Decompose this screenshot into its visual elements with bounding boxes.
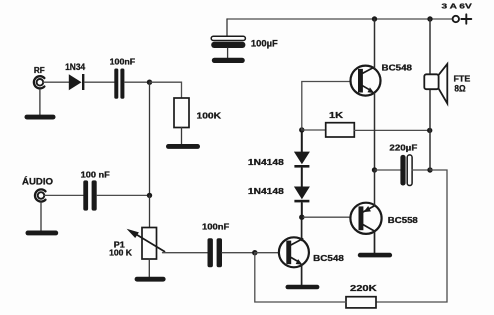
- wire node A down to audio node: [149, 82, 151, 195]
- ground under Q1: [286, 285, 320, 290]
- ground under RF: [25, 115, 56, 120]
- svg-text:100nF: 100nF: [110, 57, 136, 67]
- resistor R3 220K: [346, 283, 378, 308]
- wire P1 wiper to C3: [163, 252, 208, 254]
- svg-text:3 A 6V: 3 A 6V: [442, 1, 473, 10]
- capacitor C5 220uF: [389, 143, 417, 186]
- node A junction: [147, 80, 152, 85]
- svg-text:1N34: 1N34: [65, 62, 85, 72]
- svg-text:FTE: FTE: [454, 73, 471, 83]
- node supply junction (collector BC548): [372, 16, 377, 21]
- svg-text:100K: 100K: [197, 110, 222, 120]
- svg-text:1N4148: 1N4148: [248, 157, 284, 167]
- svg-text:1K: 1K: [329, 110, 344, 120]
- node supply junction (speaker): [427, 16, 432, 21]
- wire between diodes: [301, 168, 303, 186]
- wire Q3 emitter up to node E: [374, 170, 376, 206]
- svg-text:220K: 220K: [350, 283, 378, 293]
- wire node B to Q1 base: [255, 252, 279, 254]
- svg-text:1N4148: 1N4148: [248, 186, 284, 196]
- wire RF to ground: [39, 90, 41, 115]
- wire AUDIO to ground: [40, 202, 42, 230]
- capacitor C4 100uF (electrolytic): [211, 36, 278, 48]
- wire C5 to node F: [412, 169, 430, 171]
- capacitor C3 100nF: [202, 222, 229, 268]
- svg-text:8Ω: 8Ω: [454, 84, 465, 94]
- wire 220K to node B: [255, 253, 346, 302]
- wire node A to 100K resistor: [150, 82, 182, 98]
- svg-text:BC548: BC548: [382, 63, 413, 73]
- wire diode to C1: [84, 81, 114, 83]
- transistor Q3 BC558: [350, 203, 418, 234]
- svg-text:100 K: 100 K: [109, 249, 132, 258]
- wire node E to C5: [375, 169, 401, 171]
- transistor Q2 BC548 (top): [351, 63, 413, 96]
- node speaker/1K junction: [427, 128, 432, 133]
- speaker FTE 8ohm: [424, 64, 470, 103]
- wire R1 to ground: [181, 128, 183, 145]
- wire P1 to ground: [148, 259, 150, 277]
- svg-text:220µF: 220µF: [389, 143, 417, 153]
- wire C1 to node A: [124, 81, 149, 83]
- wire Q1 emitter to ground: [301, 265, 303, 285]
- ground under 100uF: [212, 58, 245, 63]
- wire node D up to Q2 base: [302, 82, 351, 131]
- wire Q2 collector to rail: [374, 19, 376, 68]
- node E junction: [372, 167, 377, 172]
- svg-text:RF: RF: [34, 66, 45, 75]
- ground under R1: [166, 144, 200, 149]
- wire speaker line down (rail to speaker, speaker to node F): [429, 19, 431, 170]
- ground under P1: [135, 277, 166, 282]
- node B junction: [252, 250, 257, 255]
- diode D3 1N4148 (lower): [248, 186, 310, 202]
- wire 100uF to ground: [227, 48, 229, 58]
- wire node D to R2: [302, 129, 326, 131]
- ground under Q3: [358, 253, 392, 258]
- svg-text:100nF: 100nF: [202, 222, 229, 232]
- capacitor C2 100nF: [81, 170, 110, 211]
- svg-text:BC558: BC558: [388, 215, 418, 225]
- ground under AUDIO: [26, 231, 59, 236]
- diode D1 1N34: [65, 62, 85, 90]
- diode D2 1N4148 (upper): [248, 152, 310, 168]
- svg-text:100µF: 100µF: [251, 39, 278, 49]
- wire node C to Q3 base: [302, 216, 351, 218]
- wire C2 to node B2: [97, 194, 150, 196]
- terminal AUDIO input: [22, 177, 53, 202]
- svg-text:ÁUDIO: ÁUDIO: [22, 177, 53, 187]
- node D junction: [299, 127, 304, 132]
- capacitor C1 100nF: [110, 57, 136, 99]
- wire R2 to speaker line: [354, 129, 429, 131]
- transistor Q1 BC548 (bottom): [279, 237, 344, 267]
- node F junction: [427, 167, 432, 172]
- wire Q2 emitter to node E: [374, 93, 376, 170]
- svg-text:BC548: BC548: [313, 253, 344, 263]
- wire AUDIO to C2: [45, 194, 84, 196]
- potentiometer P1 100K: [109, 228, 164, 260]
- resistor R2 1K: [326, 110, 355, 137]
- wire RF to diode: [44, 81, 69, 83]
- wire Q1 collector to node C: [301, 217, 303, 240]
- node audio junction: [147, 193, 152, 198]
- wire junction down to P1: [149, 195, 151, 227]
- node C junction: [299, 215, 304, 220]
- svg-text:100 nF: 100 nF: [81, 170, 110, 180]
- wire C3 to node B: [222, 252, 255, 254]
- wire top supply rail: [227, 18, 452, 20]
- battery terminal + (3 A 6V): [442, 1, 473, 23]
- terminal RF input: [34, 66, 45, 88]
- resistor R1 100K: [174, 98, 222, 128]
- wire node C up through diodes: [301, 203, 303, 217]
- wire rail to 100uF: [226, 19, 228, 37]
- wire Q3 collector down to ground: [374, 231, 376, 253]
- wire upper diode to node D: [301, 130, 303, 152]
- wire node F right and down to 220K: [376, 170, 447, 302]
